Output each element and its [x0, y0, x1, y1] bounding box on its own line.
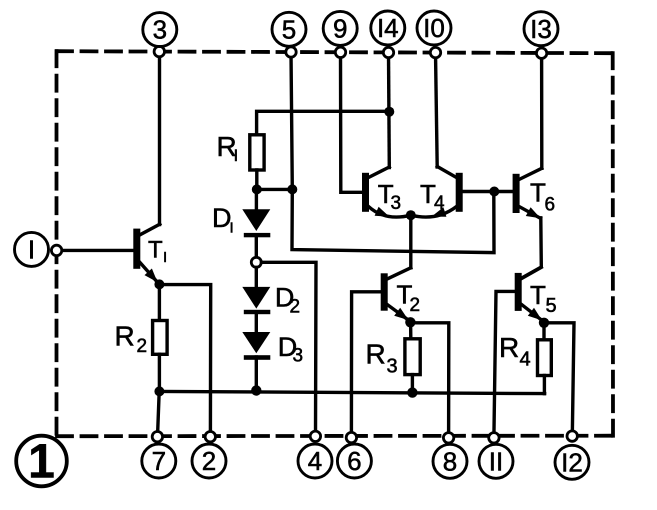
wire pin 3 to T1 collector — [158, 52, 161, 225]
wire T5 emitter to pin 12 — [544, 323, 574, 436]
pin 11 — [479, 444, 513, 478]
svg-text:R: R — [499, 332, 519, 363]
pin 6 terminal — [346, 432, 356, 442]
svg-text:I: I — [230, 220, 234, 237]
wire pin 1 to T1 base — [62, 249, 134, 252]
pin 13 — [524, 12, 558, 46]
svg-text:R: R — [366, 339, 386, 370]
svg-text:4: 4 — [520, 349, 531, 371]
svg-text:I0: I0 — [423, 13, 445, 43]
svg-text:2: 2 — [410, 295, 421, 316]
pin 3 terminal — [154, 46, 164, 56]
pin 2 — [192, 444, 226, 478]
node T1 emitter junction — [154, 279, 164, 289]
pin 10 terminal — [430, 47, 440, 57]
svg-text:II: II — [489, 446, 503, 476]
wire R3 to bottom rail — [411, 375, 414, 393]
resistor R1 — [217, 131, 265, 170]
svg-text:6: 6 — [545, 195, 556, 216]
diode D3 — [242, 332, 303, 367]
node R1 bottom junction — [252, 184, 262, 194]
node pin5 line junction — [287, 184, 297, 194]
pin 12 — [555, 445, 589, 479]
wire R2 to bottom rail — [158, 354, 161, 391]
pin 5 terminal — [286, 47, 296, 57]
node R2 bottom junction — [154, 386, 164, 396]
svg-text:I: I — [163, 249, 167, 266]
svg-text:5: 5 — [546, 295, 557, 317]
pin 12 terminal — [567, 431, 577, 441]
wire T2 emitter to R3 — [409, 322, 413, 339]
wire diode string top — [255, 189, 258, 209]
diode D1 — [212, 203, 270, 237]
wire R4 to bottom rail — [543, 376, 546, 394]
svg-text:I2: I2 — [561, 447, 583, 477]
resistor R2 — [115, 321, 168, 358]
node junction R1 wire / pin 14 line — [384, 107, 394, 117]
svg-text:T: T — [148, 237, 163, 264]
wire pin 13 to T6 collector — [540, 53, 544, 168]
wire R1 bottom to pin 5 line — [257, 170, 293, 189]
pin 4 — [298, 444, 332, 478]
wire T4 base to T6 base — [463, 190, 513, 193]
node open circle between D1 and D2 — [251, 257, 261, 267]
node diode string bottom junction — [251, 385, 261, 395]
wire D2 to D3 — [255, 312, 258, 332]
svg-text:5: 5 — [282, 14, 296, 44]
svg-text:I: I — [234, 146, 239, 165]
pin 4 terminal — [310, 431, 320, 441]
pin 13 terminal — [536, 48, 546, 58]
svg-text:2: 2 — [202, 446, 216, 476]
wire T1 emitter to pin 2 — [159, 285, 210, 437]
figure label 1 — [16, 436, 67, 487]
wire D1 to node — [255, 235, 258, 257]
wire node to D2 — [255, 267, 258, 287]
pin 8 terminal — [443, 433, 453, 443]
wire T2 emitter to pin 8 — [410, 323, 448, 438]
svg-text:3: 3 — [387, 356, 398, 378]
wire junction to pin 7 — [158, 391, 160, 436]
svg-text:2: 2 — [137, 336, 148, 357]
diode D2 — [242, 283, 300, 318]
node T3/T4 emitter junction — [406, 210, 416, 220]
node base wire junction — [489, 187, 499, 197]
transistor T5 — [515, 267, 557, 321]
transistor T6 — [513, 168, 555, 218]
wire pin 5 down and rail to T6 base — [291, 52, 494, 253]
pin 3 — [143, 13, 177, 47]
wire T5 base to pin 11 — [494, 291, 515, 437]
svg-text:4: 4 — [308, 446, 322, 476]
wire R1 top to pin 14 line — [257, 111, 390, 135]
pin 14 terminal — [383, 47, 393, 57]
transistor T1 — [133, 224, 167, 284]
pin 6 — [337, 444, 371, 478]
svg-text:I: I — [28, 235, 35, 265]
wire T5 emitter to R4 — [542, 323, 545, 340]
transistor T4 — [411, 167, 463, 218]
svg-text:3: 3 — [153, 15, 167, 45]
wire node to pin 4 — [261, 262, 316, 436]
pin 7 terminal — [152, 432, 162, 442]
pin 8 — [433, 444, 467, 478]
resistor R4 — [499, 332, 551, 376]
pin 1 — [15, 232, 49, 266]
transistor T3 — [362, 167, 411, 217]
wire pin 10 to T4 collector — [436, 53, 438, 167]
svg-text:1: 1 — [28, 436, 55, 489]
svg-text:I3: I3 — [530, 14, 552, 44]
pin 1 terminal — [51, 245, 61, 255]
svg-text:3: 3 — [391, 193, 402, 214]
wire T6 emitter to T5 collector — [523, 218, 541, 277]
svg-text:R: R — [115, 321, 135, 352]
pin 2 terminal — [205, 432, 215, 442]
pin 5 — [272, 12, 306, 46]
svg-text:8: 8 — [443, 446, 457, 476]
svg-text:4: 4 — [434, 193, 445, 214]
svg-text:I4: I4 — [377, 13, 399, 43]
wire pin 14 to T3 collector — [387, 53, 391, 168]
resistor R3 — [366, 339, 421, 378]
node R3 bottom junction — [407, 387, 417, 397]
svg-text:7: 7 — [152, 446, 166, 476]
svg-text:9: 9 — [333, 14, 347, 44]
transistor T2 — [381, 268, 420, 321]
pin 11 terminal — [489, 433, 499, 443]
svg-text:6: 6 — [347, 446, 361, 476]
svg-text:2: 2 — [290, 297, 301, 318]
IC package dashed outline — [57, 51, 614, 436]
wire pin 9 to T3 base — [341, 52, 363, 192]
pin 9 — [323, 11, 357, 45]
node T2 emitter junction — [405, 317, 415, 327]
svg-text:T: T — [530, 280, 546, 310]
pin 10 — [417, 11, 451, 45]
pin 7 — [142, 444, 176, 478]
wire T3/T4 emitters to T2 collector — [409, 215, 412, 268]
pin 9 terminal — [335, 47, 345, 57]
wire bottom rail — [159, 391, 544, 393]
wire T2 base to pin 6 — [351, 292, 380, 438]
wire T1 emitter to R2 — [158, 284, 161, 320]
pin 14 — [371, 11, 405, 45]
node T5 emitter junction — [539, 318, 549, 328]
wire D3 to bottom rail — [255, 357, 258, 390]
svg-text:3: 3 — [293, 346, 304, 367]
